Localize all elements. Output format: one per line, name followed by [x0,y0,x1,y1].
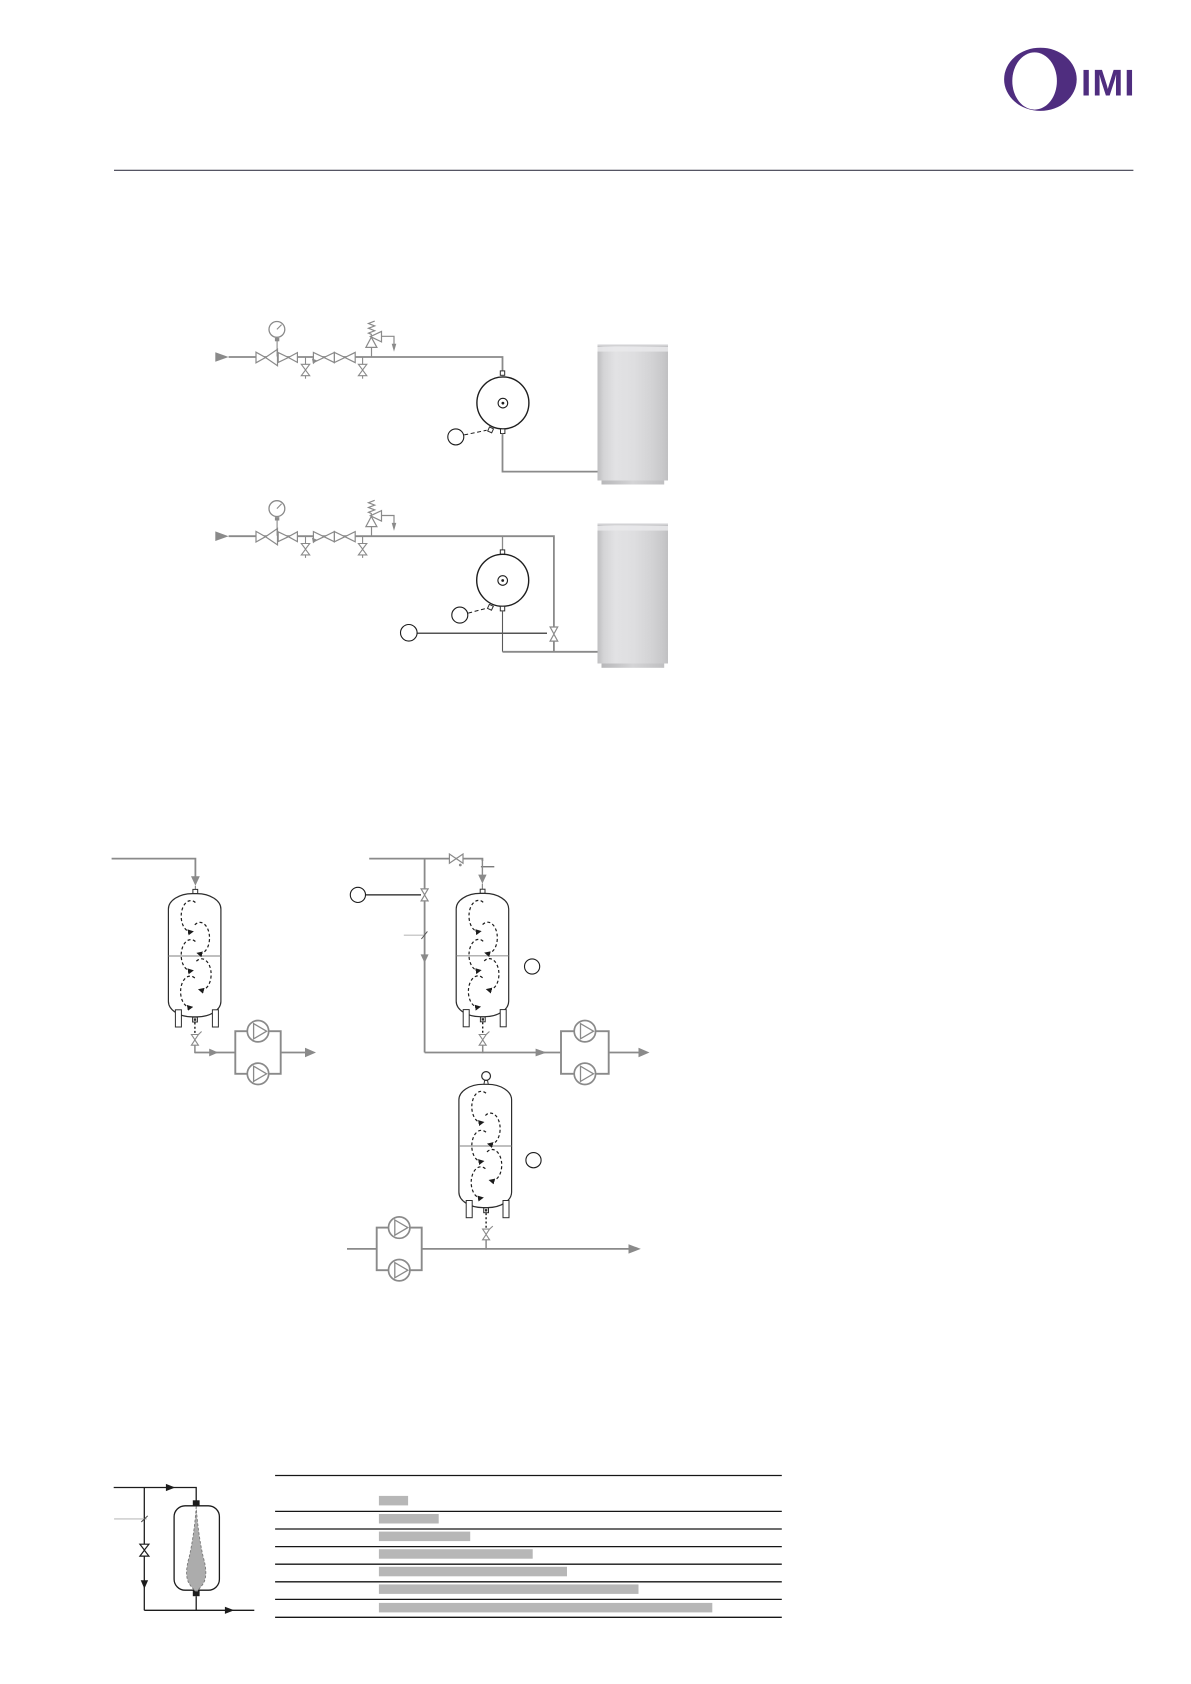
isolation valve V1 (diagram 2) [278,532,297,542]
tank legs (mid-left) [175,1010,181,1027]
swirl arrows (lower tank) [471,1091,502,1198]
check flow arrow (diagram 1) [312,358,317,364]
check flow arrow (diagram 2) [312,538,317,544]
expansion tank shell (lower) [459,1084,512,1207]
membrane vessel shell (bottom-left) [174,1506,219,1590]
callout circle 2a (diagram 2) [452,607,468,623]
pump P1 (mid-left) [247,1020,268,1041]
gauge stem line (diagram 2) [276,520,278,536]
drain dotted line (mid-left) [194,1023,196,1035]
header rule [114,169,1133,171]
safety valve SV2 (diagram 2) [366,500,394,536]
drain valve stem (mid-right) [482,1045,484,1053]
drain dotted line (lower) [485,1213,487,1229]
safety valve outlet arrow (diagram 1) [392,344,397,352]
table bar row 7 [379,1603,712,1613]
flow arrow to pumps (mid-right) [536,1049,547,1057]
vessel angled nipple (diagram 2) [487,604,493,610]
drain valve D2a (diagram 2) [301,536,309,558]
shut-off valve on boiler line (diagram 2) [550,627,558,641]
drain valve D2b (diagram 2) [358,536,366,558]
tank bottom nipple (mid-right) [480,1017,485,1022]
isolation valve V1 (diagram 1) [278,353,297,363]
main supply pipe (diagram 2) [229,536,554,627]
valve on riser (mid-right) [421,889,428,901]
vessel bottom nipple (diagram 1) [501,429,505,434]
callout circle 1 (diagram 1) [448,429,464,445]
expansion riser pipe (mid-right) [424,859,426,889]
pump suction pipe (mid-left) [195,1052,235,1054]
return pipe (mid-right) [425,1052,561,1054]
tank top nipple (mid-left) [193,889,198,893]
supply line (bottom-left) [114,1488,197,1501]
callout leader line 2b (diagram 2) [418,632,548,634]
pressure expansion vessel (diagram 2) [477,554,529,606]
drain valve D1b (diagram 1) [358,357,366,379]
table bar row 4 [379,1549,533,1559]
flow arrow on supply (bottom-left) [166,1484,175,1491]
pump bypass frame (lower) [377,1228,422,1271]
drain valve stem (lower) [485,1240,487,1250]
svg-text:IMI: IMI [1081,62,1136,103]
vessel drain line (diagram 2) [502,611,504,652]
drain valve (mid-right tank) [479,1032,489,1046]
table rules [275,1476,782,1618]
membrane bladder (bottom-left) [187,1507,206,1592]
safety valve outlet arrow (diagram 2) [392,523,397,531]
pump outlet pipe (mid-right) [609,1052,640,1054]
tank bottom nipple (mid-left) [193,1017,198,1022]
callout leader line 2a (diagram 2) [468,608,486,613]
table bar row 5 [379,1567,567,1577]
callout circle left (mid-right) [350,887,365,902]
level tick (mid-right inlet) [481,866,494,868]
table bar row 2 [379,1514,439,1524]
drain valve stem (mid-left) [194,1045,196,1053]
swirl arrows (mid-right tank) [468,900,499,1007]
pressure gauge PI (diagram 2) [269,501,285,517]
tank legs (mid-right) [463,1010,469,1027]
boiler cylinder (diagram 2) [598,524,669,668]
table bar row 3 [379,1532,470,1542]
tank inlet stub (mid-left) [194,886,196,890]
pressure reducing valve (diagram 1) [256,349,278,365]
waterline (mid-right tank) [456,955,508,957]
pump P2 (mid-left) [247,1063,268,1084]
supply pipe (mid-right) [369,859,482,861]
callout circle (lower tank) [526,1153,541,1168]
pump P3 (mid-right) [574,1020,595,1041]
table bar row 1 [379,1496,408,1506]
inlet down arrow (mid-left) [191,876,200,886]
shut-off valve pair V2 (diagram 2) [313,532,355,542]
expansion tank shell (mid-left) [168,894,221,1017]
tank inlet line (mid-right) [481,859,483,876]
pump bypass frame (mid-right) [561,1031,609,1074]
vessel top port (bottom-left) [193,1500,200,1506]
safety valve SV1 (diagram 1) [366,321,394,357]
flow arrow on riser (mid-right) [421,954,429,963]
pump P4 (mid-right) [574,1063,595,1084]
drain dotted line (mid-right) [482,1022,484,1034]
valve on supply pipe (mid-right) [449,854,463,863]
pump P5 (lower) [389,1217,410,1238]
inlet flow arrow (diagram 2) [215,531,228,541]
vessel top nipple (diagram 2) [500,550,504,554]
inlet flow arrow (diagram 1) [215,352,228,362]
flow arrow on bottom line (bottom-left) [225,1607,234,1614]
pump P6 (lower) [389,1260,410,1281]
callout leader line (diagram 1) [464,430,486,435]
main supply pipe (diagram 1) [229,357,503,372]
pressure gauge PI (diagram 1) [269,322,285,338]
bottom line (bottom-left) [144,1609,254,1611]
expansion tank shell (mid-right) [456,893,509,1016]
tank legs (lower) [466,1201,472,1218]
vessel bottom port (bottom-left) [193,1590,200,1596]
tank inlet stub (mid-right) [481,884,483,890]
callout leader line (mid-right) [366,894,421,896]
outlet arrow (mid-left) [305,1048,316,1057]
pump outlet pipe (mid-left) [281,1052,306,1054]
vessel bottom nipple (diagram 2) [500,606,504,611]
outlet arrow (mid-right) [639,1048,650,1057]
expansion pipe to boiler (diagram 1) [503,434,598,472]
boiler cylinder (diagram 1) [598,345,669,485]
IMI logo mark (purple eclipse O) [1004,48,1077,111]
vessel top nipple (diagram 1) [500,371,504,375]
swirl arrows (mid-left tank) [181,901,212,1008]
bottom port connector (bottom-left) [195,1596,197,1610]
outlet arrow (lower) [629,1244,641,1253]
level mark on riser (mid-right) [404,934,425,936]
tank bottom nipple (lower) [484,1208,489,1213]
pressure reducing valve (diagram 2) [256,529,278,545]
waterline (mid-left tank) [169,955,221,957]
shut-off valve pair V2 (diagram 1) [313,352,355,362]
callout circle right (mid-right) [525,959,540,974]
vessel angled nipple (diagram 1) [488,427,494,433]
pressure expansion vessel (diagram 1) [477,377,529,429]
drain valve (mid-left) [191,1032,201,1046]
inlet down arrow (mid-right) [478,875,486,884]
flow arrow to pumps (mid-left) [209,1049,218,1057]
valve drain dot (mid-right) [459,864,462,867]
table bar row 6 [379,1584,639,1594]
drain valve (lower tank) [483,1226,493,1240]
main distribution pipe (lower) [347,1248,377,1250]
gauge stem line (diagram 1) [276,341,278,357]
level mark (bottom-left) [114,1518,147,1520]
boiler return pipes (diagram 2) [553,641,555,652]
vessel branch line (diagram 2) [502,536,504,550]
pump bypass frame (mid-left) [235,1031,280,1074]
inlet pipe (mid-left) [112,859,196,877]
valve on riser (bottom-left) [140,1544,149,1556]
vent valve (lower tank) [482,1072,491,1081]
down arrow on riser (bottom-left) [141,1580,148,1589]
branch riser (bottom-left) [143,1488,145,1611]
tank top nipple (mid-right) [480,889,485,893]
callout circle 2b (diagram 2) [401,625,418,642]
waterline (lower tank) [459,1145,511,1147]
drain valve D1a (diagram 1) [301,357,309,379]
